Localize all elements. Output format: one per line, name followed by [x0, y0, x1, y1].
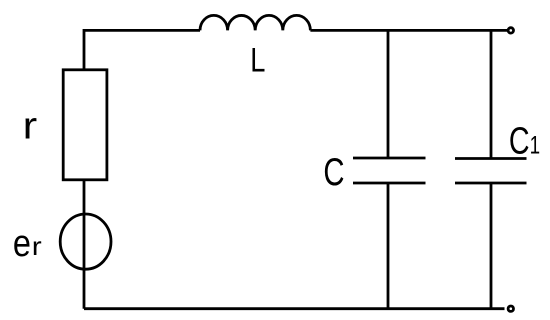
terminal bottom-right	[508, 306, 513, 311]
capacitor C1 plates	[455, 159, 527, 184]
svg-text:C1: C1	[509, 121, 540, 163]
svg-text:r: r	[23, 104, 38, 147]
source e_r	[60, 214, 111, 269]
svg-text:L: L	[250, 41, 265, 80]
svg-text:e: e	[13, 223, 31, 265]
wire bottom rail	[84, 307, 505, 310]
svg-text:r: r	[32, 232, 42, 261]
svg-text:C: C	[323, 151, 344, 194]
wire resistor to bottom rail	[83, 180, 86, 309]
wire capacitor C1 top lead	[490, 30, 493, 158]
capacitor C plates	[353, 158, 426, 183]
wire capacitor C1 bottom lead	[490, 183, 493, 309]
inductor L	[200, 15, 310, 30]
resistor r	[63, 70, 107, 180]
wire capacitor C bottom lead	[387, 183, 390, 309]
wire inductor to output terminal	[310, 29, 507, 32]
wire top-left (source branch to inductor)	[84, 30, 200, 70]
wire capacitor C top lead	[387, 30, 390, 158]
terminal top-right	[508, 28, 513, 33]
